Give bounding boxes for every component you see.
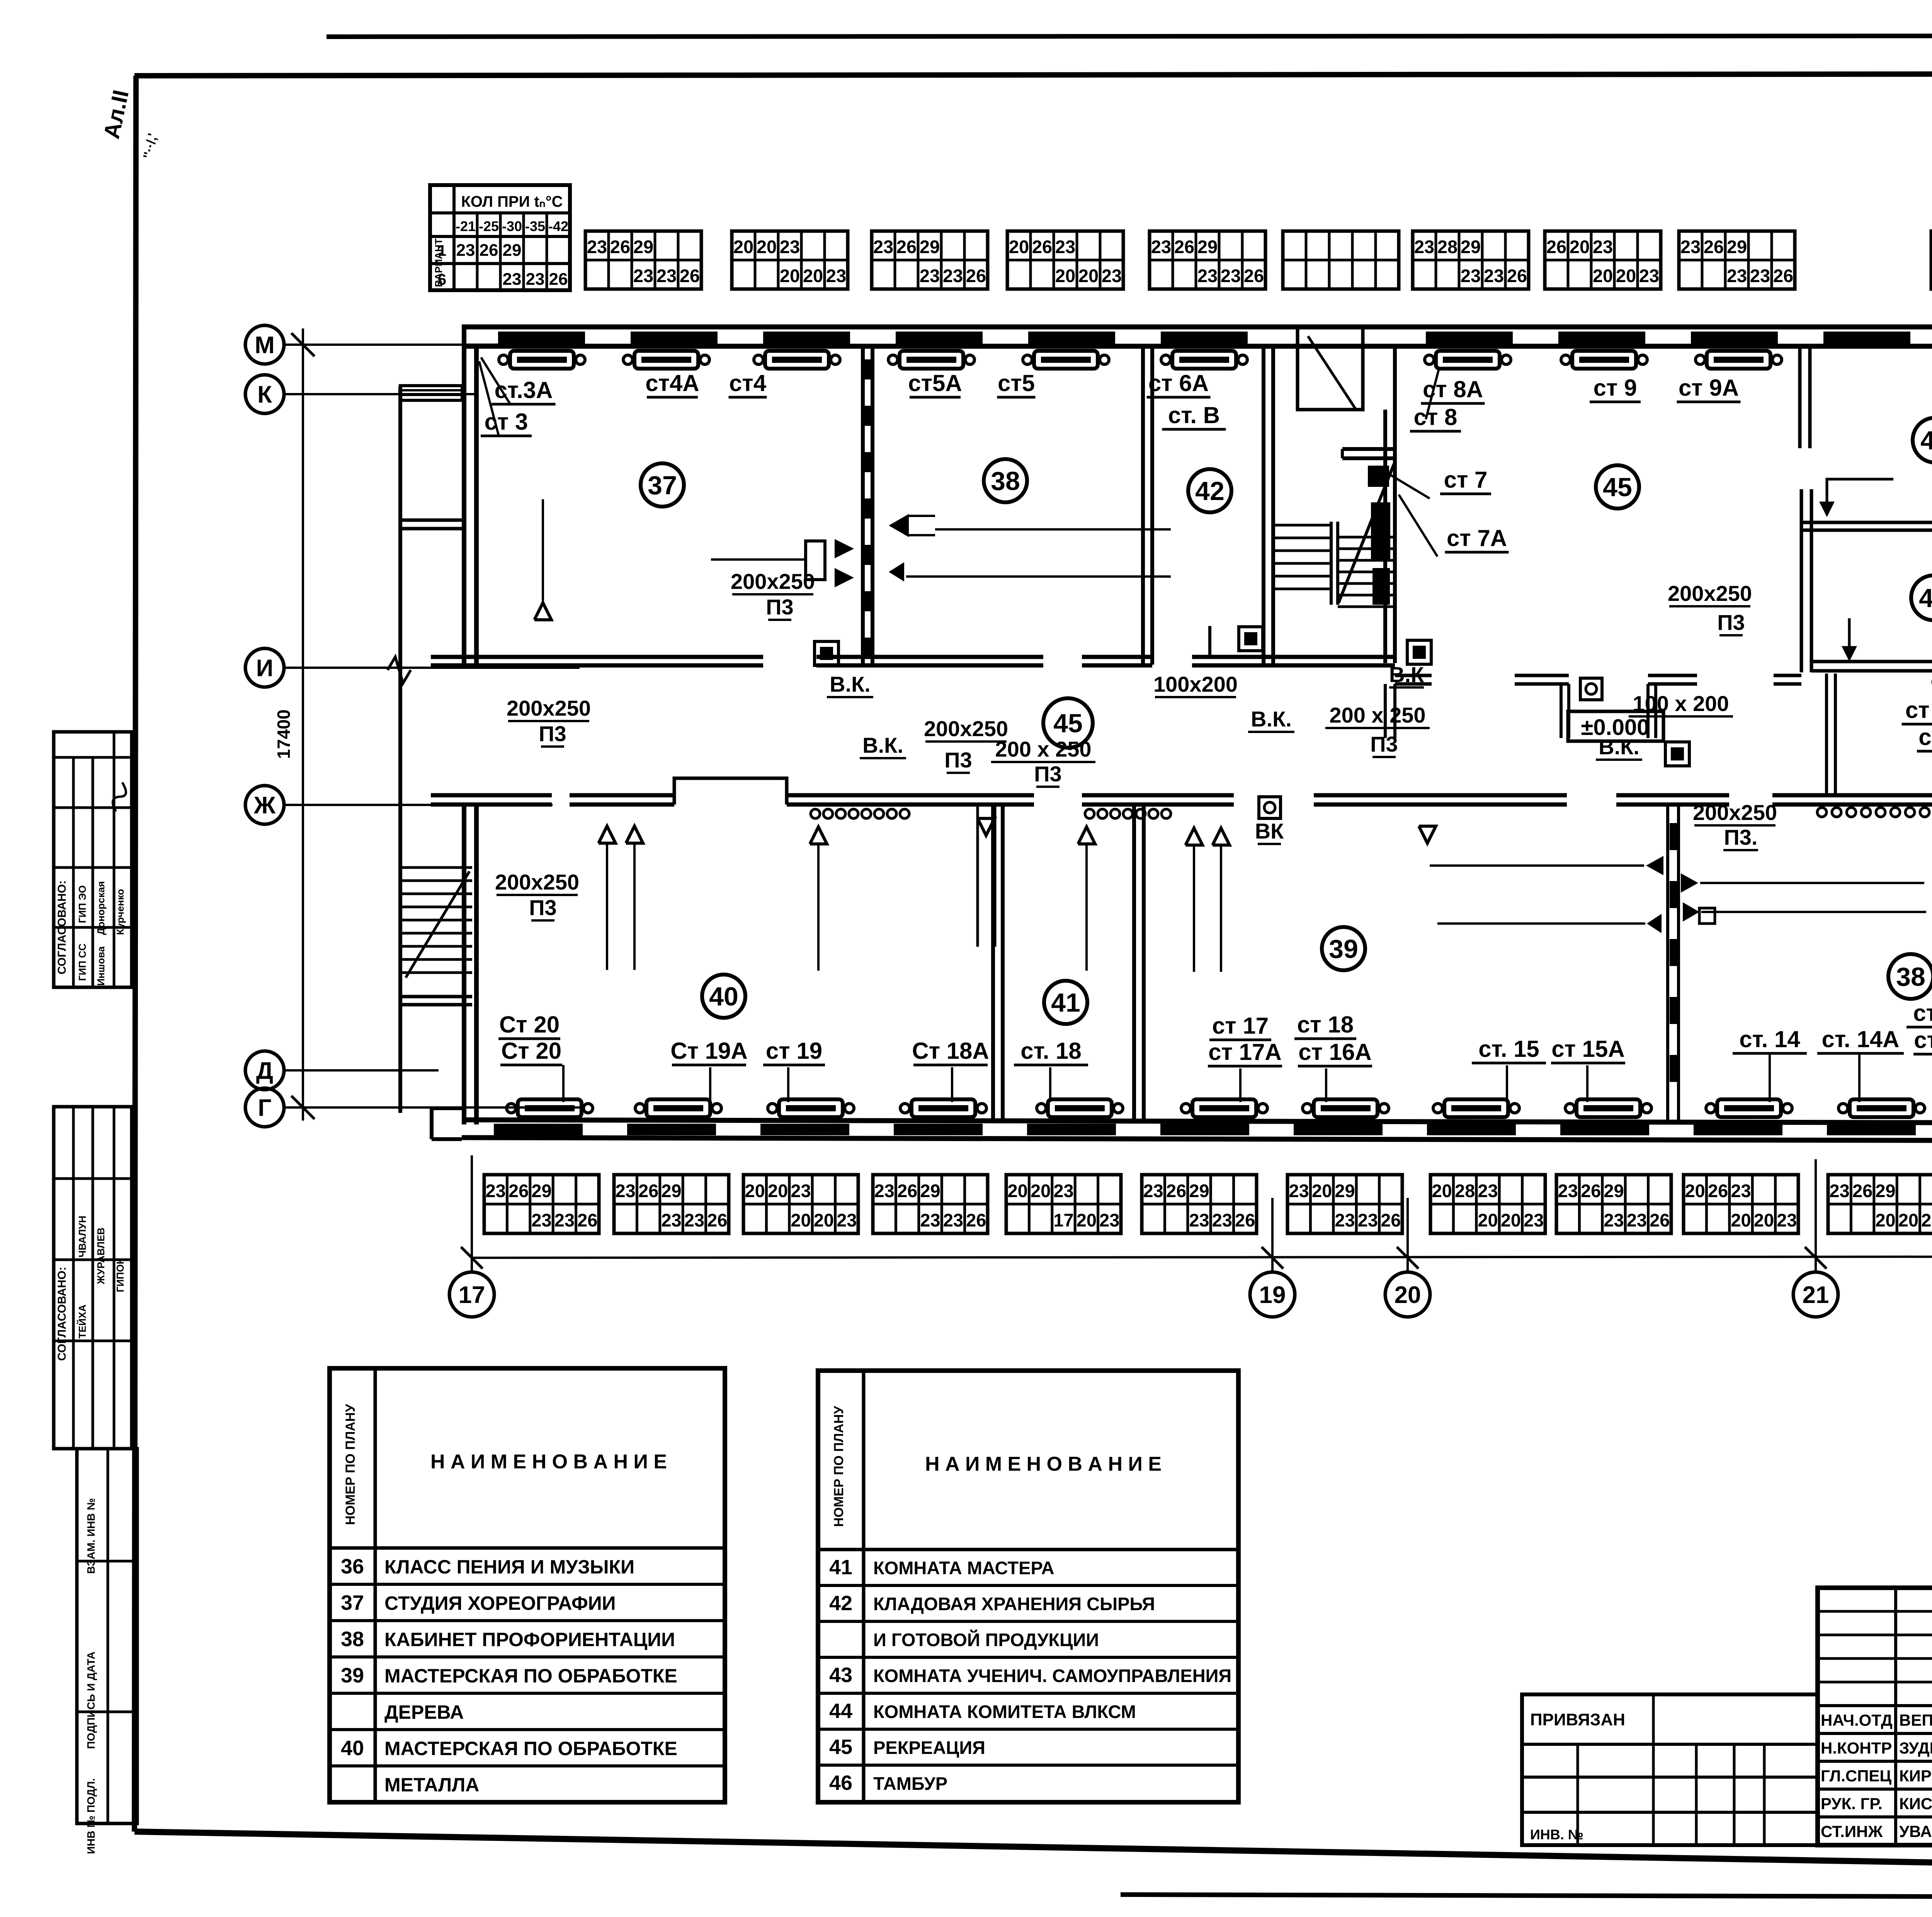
svg-text:КЛАСС ПЕНИЯ И МУЗЫКИ: КЛАСС ПЕНИЯ И МУЗЫКИ — [384, 1556, 634, 1578]
tambour door swing — [1308, 336, 1355, 409]
svg-text:КАБИНЕТ ПРОФОРИЕНТАЦИИ: КАБИНЕТ ПРОФОРИЕНТАЦИИ — [384, 1629, 675, 1650]
svg-text:Г: Г — [258, 1095, 271, 1121]
svg-text:23: 23 — [1289, 1180, 1309, 1201]
room 43 bottom wall — [1812, 660, 1932, 663]
VK box — [1239, 627, 1263, 651]
svg-text:Н А И М Е Н О В А Н И Е: Н А И М Е Н О В А Н И Е — [925, 1453, 1162, 1475]
svg-text:Ж: Ж — [253, 792, 276, 819]
upper strip left wall — [462, 327, 466, 665]
svg-text:ст 17: ст 17 — [1212, 1013, 1269, 1039]
vent triangle 43 — [1842, 646, 1857, 662]
svg-text:26: 26 — [1166, 1180, 1186, 1201]
bottom dimension line — [472, 1257, 1932, 1258]
svg-text:45: 45 — [1603, 473, 1632, 502]
svg-text:23: 23 — [943, 265, 963, 286]
svg-text:ст 7А: ст 7А — [1447, 525, 1507, 551]
VK box — [815, 641, 838, 665]
cone diffuser right 2 — [889, 562, 904, 582]
title block left appendix — [1522, 1694, 1818, 1845]
radiator upper 1 — [510, 351, 574, 369]
entrance stair diagonal — [406, 871, 469, 978]
svg-text:23: 23 — [1604, 1210, 1624, 1230]
svg-text:29: 29 — [1197, 236, 1218, 257]
svg-text:26: 26 — [1546, 236, 1566, 257]
axis break zigzag on line И — [388, 657, 411, 683]
svg-text:КИСЕЛЕВА: КИСЕЛЕВА — [1899, 1795, 1932, 1813]
duct small box — [1699, 908, 1715, 924]
radiator upper 5 — [1034, 351, 1098, 369]
svg-text:ст 16А: ст 16А — [1298, 1039, 1372, 1065]
svg-text:26: 26 — [1507, 265, 1527, 286]
bottom parameter table 7 — [1287, 1175, 1402, 1233]
duct grilles between 37 and 38 — [864, 359, 872, 379]
svg-text:20: 20 — [1478, 1210, 1498, 1230]
svg-text:20: 20 — [1031, 1180, 1051, 1201]
svg-text:20: 20 — [1009, 236, 1029, 257]
svg-text:29: 29 — [920, 236, 940, 257]
svg-text:44: 44 — [1920, 426, 1932, 455]
leader lines st8 — [1426, 367, 1439, 419]
svg-text:ст 13А: ст 13А — [1914, 1027, 1932, 1053]
svg-text:ТАМБУР: ТАМБУР — [873, 1773, 947, 1794]
svg-text:ПРИВЯЗАН: ПРИВЯЗАН — [1530, 1710, 1625, 1729]
svg-text:23: 23 — [837, 1210, 857, 1230]
heating convector circles mid — [1085, 809, 1171, 818]
svg-text:ст 9А: ст 9А — [1679, 375, 1739, 401]
radiator lower 10 — [1717, 1099, 1781, 1117]
svg-text:20: 20 — [1008, 1180, 1028, 1201]
top parameter table 8 — [1545, 231, 1661, 289]
svg-text:26: 26 — [966, 1210, 986, 1230]
svg-text:ст. 14: ст. 14 — [1739, 1026, 1800, 1052]
bottom parameter table 8 — [1430, 1175, 1545, 1233]
bottom extra line — [1121, 1895, 1932, 1897]
svg-text:20: 20 — [1898, 1210, 1918, 1230]
wall between rooms 44 and 43 — [1801, 521, 1932, 524]
partition rooms 38/42 — [1141, 347, 1145, 665]
svg-text:Курченко: Курченко — [114, 889, 126, 935]
svg-text:23: 23 — [1189, 1210, 1209, 1230]
svg-text:20: 20 — [1432, 1180, 1452, 1201]
svg-text:ст 12: ст 12 — [1905, 697, 1932, 723]
svg-text:23: 23 — [456, 241, 475, 260]
axis circle И — [245, 648, 284, 687]
svg-text:ВЗАМ. ИНВ №: ВЗАМ. ИНВ № — [85, 1498, 97, 1574]
svg-text:23: 23 — [1055, 236, 1075, 257]
svg-text:Донорская: Донорская — [95, 881, 107, 935]
svg-text:П3: П3 — [766, 595, 793, 619]
svg-text:23: 23 — [874, 1180, 895, 1201]
heating convector circles right — [1817, 808, 1932, 817]
svg-text:ст 8: ст 8 — [1414, 404, 1458, 430]
sheet frame bottom line — [134, 1832, 1932, 1875]
svg-text:20: 20 — [1501, 1210, 1521, 1230]
radiator lower 3 — [779, 1099, 843, 1117]
svg-text:26: 26 — [1581, 1180, 1601, 1201]
svg-text:23: 23 — [1099, 1210, 1119, 1230]
svg-text:23: 23 — [1750, 265, 1770, 286]
axis circle Ж — [245, 786, 284, 824]
supply arrows room 37 — [835, 539, 854, 558]
svg-text:П3.: П3. — [1724, 825, 1758, 849]
svg-text:23: 23 — [616, 1180, 636, 1201]
stair treads left flight — [1273, 524, 1331, 527]
svg-text:ст. 18: ст. 18 — [1020, 1038, 1082, 1064]
svg-text:26: 26 — [610, 236, 630, 257]
svg-text:К: К — [257, 381, 272, 408]
svg-text:29: 29 — [1875, 1180, 1895, 1201]
svg-text:23: 23 — [1335, 1210, 1355, 1230]
svg-text:ст 6А: ст 6А — [1148, 370, 1209, 396]
svg-text:45: 45 — [1053, 709, 1083, 738]
duct below room 43 — [1825, 674, 1828, 795]
room circle 45 — [1043, 698, 1093, 748]
svg-text:200х250: 200х250 — [731, 569, 815, 594]
svg-text:26: 26 — [1235, 1210, 1255, 1230]
axis circle Г — [245, 1088, 284, 1127]
svg-text:И ГОТОВОЙ ПРОДУКЦИИ: И ГОТОВОЙ ПРОДУКЦИИ — [873, 1630, 1099, 1650]
svg-text:26: 26 — [680, 265, 700, 286]
svg-text:28: 28 — [1437, 236, 1458, 257]
svg-text:26: 26 — [707, 1210, 727, 1230]
radiator lower 5 — [1048, 1099, 1112, 1117]
svg-text:20: 20 — [1731, 1210, 1751, 1230]
svg-text:СОГЛАСОВАНО:: СОГЛАСОВАНО: — [56, 880, 68, 975]
svg-text:26: 26 — [1174, 236, 1194, 257]
svg-text:ст. 15: ст. 15 — [1478, 1036, 1539, 1062]
svg-text:26: 26 — [549, 270, 568, 289]
partition rooms 40/41 — [991, 805, 995, 1121]
svg-text:23: 23 — [1680, 236, 1701, 257]
bottom parameter table 3 — [743, 1175, 858, 1233]
svg-text:26: 26 — [1773, 265, 1793, 286]
svg-text:ЧВАЛУН: ЧВАЛУН — [77, 1216, 88, 1257]
svg-text:В.К: В.К — [1389, 662, 1424, 687]
svg-text:ЗУДИНА: ЗУДИНА — [1899, 1739, 1932, 1757]
svg-text:ст 9: ст 9 — [1594, 375, 1637, 401]
svg-text:43: 43 — [1919, 583, 1932, 613]
svg-text:КОМНАТА КОМИТЕТА ВЛКСМ: КОМНАТА КОМИТЕТА ВЛКСМ — [873, 1701, 1136, 1722]
svg-text:ст. 13: ст. 13 — [1913, 1000, 1932, 1026]
svg-text:23: 23 — [920, 1210, 940, 1230]
svg-text:Н А И М Е Н О В А Н И Е: Н А И М Е Н О В А Н И Е — [430, 1451, 667, 1473]
svg-text:23: 23 — [1102, 265, 1122, 286]
svg-text:ИНВ. №: ИНВ. № — [1530, 1827, 1583, 1842]
svg-text:-30: -30 — [502, 218, 522, 234]
svg-text:26: 26 — [577, 1210, 597, 1230]
top parameter table 3 — [872, 231, 988, 289]
svg-text:ИНВ № ПОДЛ.: ИНВ № ПОДЛ. — [85, 1778, 97, 1854]
svg-text:28: 28 — [1455, 1180, 1475, 1201]
svg-text:23: 23 — [920, 265, 940, 286]
svg-text:26: 26 — [897, 1180, 917, 1201]
svg-text:20: 20 — [733, 236, 753, 257]
partition room 45/44 — [1798, 347, 1802, 448]
svg-text:СТ.ИНЖ: СТ.ИНЖ — [1821, 1822, 1883, 1840]
top wall inner line — [462, 344, 1932, 349]
svg-text:ДЕРЕВА: ДЕРЕВА — [384, 1701, 464, 1723]
svg-text:26: 26 — [1704, 236, 1724, 257]
room circle 42 — [1188, 469, 1231, 512]
svg-text:УВАРОВА: УВАРОВА — [1899, 1822, 1932, 1840]
heating convector circles left — [811, 809, 909, 818]
top parameter table 4 — [1007, 231, 1123, 289]
svg-text:23: 23 — [531, 1210, 551, 1230]
leader lines upper left — [481, 357, 510, 404]
svg-text:29: 29 — [1727, 236, 1747, 257]
radiator upper 4 — [900, 351, 963, 369]
corridor wall И right segments — [1395, 674, 1432, 677]
svg-text:20: 20 — [1685, 1180, 1705, 1201]
svg-text:26: 26 — [1381, 1210, 1401, 1230]
room circle 44 — [1913, 418, 1932, 463]
svg-text:26: 26 — [638, 1180, 658, 1201]
svg-text:НОМЕР ПО ПЛАНУ: НОМЕР ПО ПЛАНУ — [832, 1406, 846, 1527]
vent triangle — [1078, 827, 1095, 844]
bottom parameter table 1 — [484, 1175, 599, 1233]
wall Ж segments — [431, 793, 552, 798]
feature 42 door stub — [1208, 626, 1211, 657]
top parameter table 9 — [1679, 231, 1795, 289]
svg-text:П3: П3 — [539, 721, 566, 746]
axis circle М — [245, 325, 284, 364]
top parameter table 6 — [1283, 231, 1399, 289]
svg-text:ст 3: ст 3 — [485, 409, 528, 435]
svg-text:-42: -42 — [548, 218, 568, 234]
svg-text:200х250: 200х250 — [1668, 581, 1752, 606]
radiator lower 1 — [518, 1099, 582, 1117]
sheet frame left line — [134, 76, 136, 1832]
svg-text:23: 23 — [1143, 1180, 1163, 1201]
svg-text:20: 20 — [803, 265, 823, 286]
svg-text:±0.000: ±0.000 — [1581, 715, 1650, 740]
svg-text:МАСТЕРСКАЯ ПО ОБРАБОТКЕ: МАСТЕРСКАЯ ПО ОБРАБОТКЕ — [384, 1738, 677, 1759]
svg-text:38: 38 — [341, 1628, 364, 1651]
svg-text:20: 20 — [791, 1210, 811, 1230]
svg-text:В.К.: В.К. — [830, 672, 871, 696]
svg-text:23: 23 — [1731, 1180, 1751, 1201]
svg-text:23: 23 — [1197, 265, 1218, 286]
axis circle 20 — [1406, 1198, 1409, 1272]
radiator upper 8 — [1572, 351, 1636, 369]
left margin stamp table 2 — [54, 1107, 132, 1449]
vent triangle — [1185, 828, 1202, 845]
svg-text:23: 23 — [1593, 236, 1613, 257]
svg-text:-35: -35 — [525, 218, 545, 234]
svg-text:20: 20 — [1077, 1210, 1097, 1230]
room circle 40 — [702, 975, 745, 1018]
axis circle Д — [245, 1051, 284, 1090]
svg-text:29: 29 — [1335, 1180, 1355, 1201]
svg-text:П3: П3 — [944, 748, 972, 772]
svg-text:23: 23 — [1921, 1210, 1932, 1230]
bottom wall inner line — [462, 1120, 1932, 1123]
vent triangle — [626, 826, 643, 843]
stair landing wall — [1342, 447, 1397, 451]
svg-text:23: 23 — [780, 236, 800, 257]
svg-text:ст 7: ст 7 — [1444, 467, 1488, 493]
radiator lower 11 — [1850, 1099, 1913, 1117]
svg-text:23: 23 — [1627, 1210, 1647, 1230]
svg-text:29: 29 — [920, 1180, 940, 1201]
svg-text:20: 20 — [1055, 265, 1075, 286]
svg-text:6: 6 — [438, 271, 446, 288]
corridor stub below stairwell — [1384, 684, 1387, 738]
svg-text:23: 23 — [1358, 1210, 1378, 1230]
top parameter table 2 — [732, 231, 848, 289]
svg-text:20: 20 — [1616, 265, 1636, 286]
svg-text:Ст 18А: Ст 18А — [912, 1038, 989, 1064]
partition rooms 41/39 — [1132, 805, 1136, 1121]
room circle 38 — [984, 459, 1027, 502]
svg-text:ГИП ЭО: ГИП ЭО — [77, 885, 88, 923]
svg-text:42: 42 — [1195, 476, 1225, 506]
svg-text:200х250: 200х250 — [1693, 800, 1777, 825]
svg-text:17: 17 — [1053, 1210, 1073, 1230]
wall Ж niche — [674, 778, 787, 805]
top parameter table 7 — [1413, 231, 1529, 289]
radiator upper 9 — [1707, 351, 1770, 369]
svg-text:20: 20 — [745, 1180, 765, 1201]
svg-text:26: 26 — [1650, 1210, 1670, 1230]
corridor wall И left segments — [431, 655, 763, 659]
svg-text:ст.3А: ст.3А — [495, 377, 553, 403]
svg-text:38: 38 — [1896, 962, 1925, 992]
top outer wall line — [462, 325, 1932, 330]
room circle 43 — [1911, 575, 1932, 620]
sheet frame top band upper line — [327, 36, 1932, 37]
svg-text:П3: П3 — [1717, 610, 1745, 634]
radiator upper 3 — [765, 351, 829, 369]
svg-text:23: 23 — [1461, 265, 1481, 286]
svg-text:ст. 14А: ст. 14А — [1822, 1026, 1900, 1052]
svg-text:26: 26 — [1244, 265, 1264, 286]
bottom parameter table 4 — [873, 1175, 988, 1233]
radiator lower 2 — [646, 1099, 710, 1117]
svg-text:29: 29 — [661, 1180, 681, 1201]
svg-text:СОГЛАСОВАНО:: СОГЛАСОВАНО: — [56, 1267, 68, 1361]
title block central grid — [1818, 1588, 1932, 1845]
bottom wall outer line — [462, 1138, 1932, 1141]
radiator upper 7 — [1436, 351, 1500, 369]
svg-text:26: 26 — [1032, 236, 1052, 257]
legend table 1 — [330, 1368, 725, 1802]
radiator lower 8 — [1444, 1099, 1508, 1117]
corridor stub walls — [1560, 684, 1563, 738]
cone diffuser right — [889, 514, 909, 537]
vent triangle down right — [1419, 826, 1436, 843]
room circle 38 — [1888, 954, 1932, 999]
bottom parameter table 5 — [1006, 1175, 1121, 1233]
svg-text:ст 15А: ст 15А — [1551, 1036, 1625, 1062]
svg-text:23: 23 — [943, 1210, 963, 1230]
svg-text:20: 20 — [1395, 1282, 1421, 1308]
svg-text:26: 26 — [1852, 1180, 1872, 1201]
svg-text:46: 46 — [829, 1771, 852, 1795]
svg-text:21: 21 — [1803, 1282, 1829, 1308]
svg-text:В.К.: В.К. — [862, 733, 903, 757]
bottom wall window bars — [494, 1124, 583, 1135]
svg-text:ст. В: ст. В — [1168, 402, 1220, 428]
axis circle К — [245, 375, 284, 413]
svg-text:И: И — [256, 655, 274, 682]
svg-text:29: 29 — [531, 1180, 551, 1201]
svg-text:Д: Д — [256, 1058, 273, 1084]
svg-text:1: 1 — [438, 242, 446, 259]
svg-text:-25: -25 — [479, 218, 499, 234]
vent triangle — [599, 826, 616, 843]
svg-text:39: 39 — [1329, 934, 1358, 964]
svg-text:ст4А: ст4А — [645, 370, 699, 396]
svg-text:Ст 20: Ст 20 — [501, 1038, 561, 1064]
svg-text:26: 26 — [480, 241, 498, 260]
svg-text:ТЕЙХА: ТЕЙХА — [77, 1305, 88, 1339]
svg-text:23: 23 — [587, 236, 607, 257]
svg-text:ГИПОК: ГИПОК — [114, 1258, 126, 1292]
vent triangle down funnel — [978, 818, 995, 835]
svg-text:40: 40 — [709, 982, 738, 1011]
svg-text:П3: П3 — [529, 895, 556, 920]
svg-text:23: 23 — [1221, 265, 1241, 286]
svg-text:100х200: 100х200 — [1153, 672, 1238, 696]
svg-text:36: 36 — [341, 1555, 364, 1578]
svg-text:КЛАДОВАЯ ХРАНЕНИЯ СЫРЬЯ: КЛАДОВАЯ ХРАНЕНИЯ СЫРЬЯ — [873, 1594, 1155, 1614]
svg-text:23: 23 — [826, 265, 846, 286]
top parameter table 1 — [585, 231, 701, 289]
svg-text:МАСТЕРСКАЯ ПО ОБРАБОТКЕ: МАСТЕРСКАЯ ПО ОБРАБОТКЕ — [384, 1665, 677, 1687]
svg-text:В.К.: В.К. — [1251, 707, 1292, 731]
svg-text:23: 23 — [1639, 265, 1659, 286]
svg-text:ГЛ.СПЕЦ: ГЛ.СПЕЦ — [1821, 1767, 1891, 1785]
duct trumpet cluster lower — [1646, 856, 1663, 875]
svg-text:ст5: ст5 — [998, 370, 1035, 396]
svg-text:Ст 20: Ст 20 — [499, 1012, 560, 1038]
svg-text:ст5А: ст5А — [908, 370, 962, 396]
svg-text:41: 41 — [1051, 988, 1080, 1017]
axis dimension line vertical — [302, 328, 304, 1121]
svg-text:23: 23 — [1414, 236, 1434, 257]
svg-text:23: 23 — [1777, 1210, 1797, 1230]
radiator lower 9 — [1577, 1099, 1640, 1117]
svg-text:ЖУРАВЛЕВ: ЖУРАВЛЕВ — [95, 1228, 107, 1285]
bottom parameter table 11 — [1828, 1175, 1932, 1233]
vent triangle room 37 — [534, 603, 551, 620]
radiator lower 4 — [912, 1099, 975, 1117]
svg-text:КИРИЛЛОВА: КИРИЛЛОВА — [1899, 1767, 1932, 1785]
svg-text:ПОДПИСЬ И ДАТА: ПОДПИСЬ И ДАТА — [85, 1652, 97, 1749]
top parameter table 5 — [1150, 231, 1265, 289]
svg-text:Ст 19А: Ст 19А — [670, 1038, 747, 1064]
svg-text:29: 29 — [633, 236, 653, 257]
svg-text:17: 17 — [459, 1282, 485, 1308]
VK circle left — [1259, 797, 1281, 818]
svg-text:20: 20 — [1078, 265, 1099, 286]
top wall window bars — [498, 332, 585, 344]
svg-text:23: 23 — [1053, 1180, 1073, 1201]
partition rooms 37/38 — [861, 347, 865, 665]
porch window strip at K — [400, 386, 462, 400]
svg-text:23: 23 — [1212, 1210, 1232, 1230]
svg-text:23: 23 — [1524, 1210, 1544, 1230]
VK box corridor center — [1580, 678, 1602, 700]
svg-text:20: 20 — [1754, 1210, 1774, 1230]
radiator upper 2 — [634, 351, 698, 369]
lower strip left wall — [462, 805, 466, 1124]
svg-text:20: 20 — [1570, 236, 1590, 257]
svg-text:20: 20 — [1593, 265, 1613, 286]
svg-text:29: 29 — [1189, 1180, 1209, 1201]
VK box — [1665, 742, 1689, 766]
